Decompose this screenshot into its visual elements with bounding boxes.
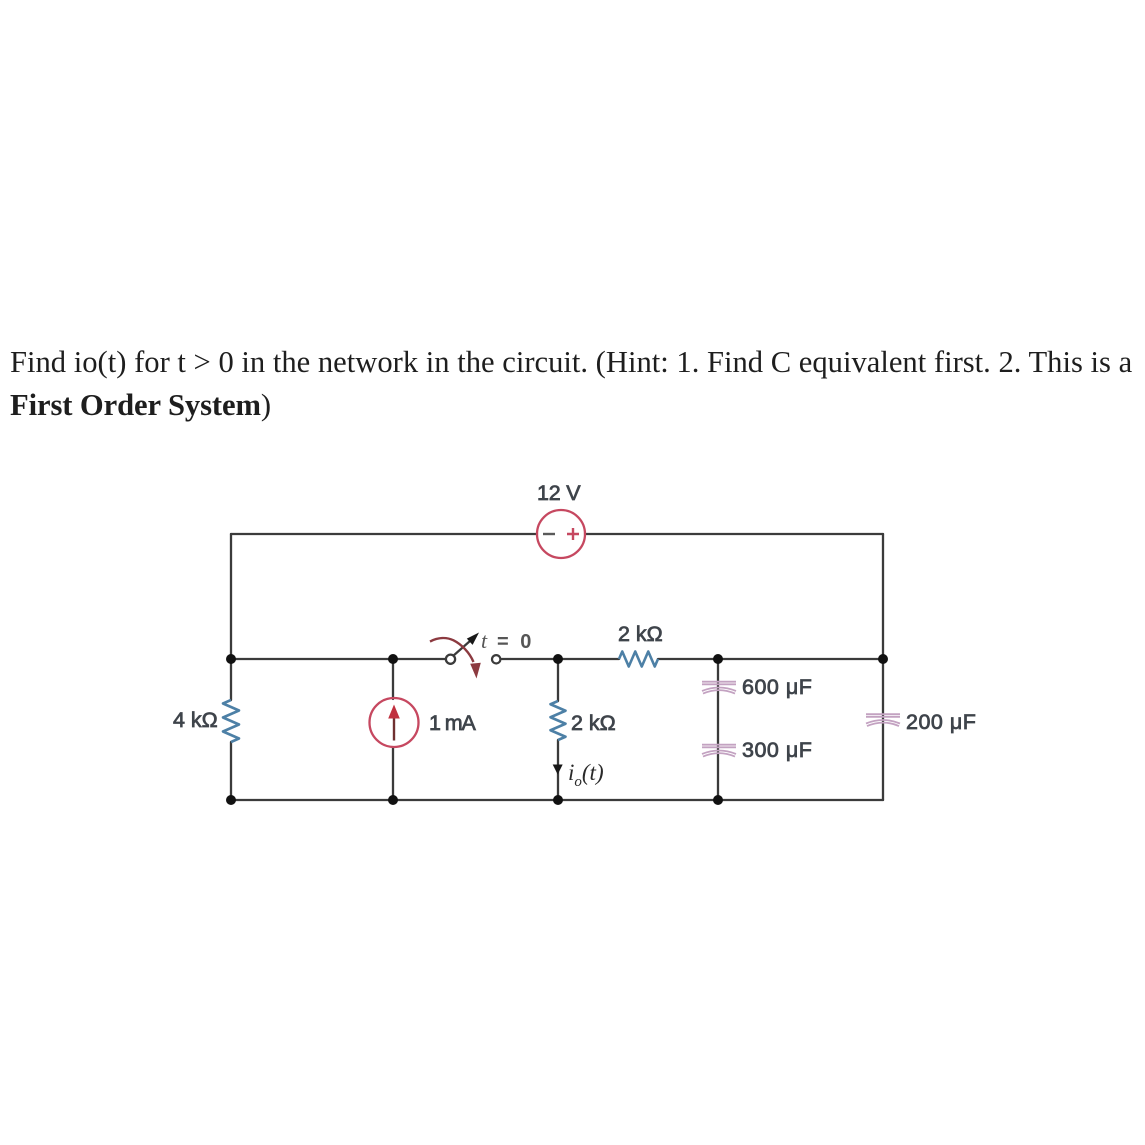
capacitor C3 200uF [866, 714, 900, 726]
wire middle left of switch [231, 658, 446, 660]
resistor R2 2 kOhm horizontal [619, 652, 658, 667]
svg-text:t: t [481, 628, 488, 653]
node C current source top junction [388, 654, 398, 664]
wire left rail lower [230, 742, 232, 800]
svg-text:2 kΩ: 2 kΩ [571, 711, 616, 735]
svg-text:= 0: = 0 [497, 631, 534, 653]
wire current source branch lower [392, 748, 394, 800]
wire top right segment [585, 533, 883, 535]
svg-text:1 mA: 1 mA [429, 711, 477, 735]
wire 2k vertical branch lower [557, 740, 559, 800]
node G capacitor branch top junction [713, 654, 723, 664]
wire current source branch upper [392, 659, 394, 699]
wire right rail [882, 534, 884, 800]
wire middle resistor to right rail [658, 658, 883, 660]
node H capacitor branch bottom junction [713, 795, 723, 805]
svg-text:2 kΩ: 2 kΩ [618, 622, 663, 646]
node F 2k branch bottom junction [553, 795, 563, 805]
svg-text:600 μF: 600 μF [742, 675, 812, 699]
wire middle switch to resistor [501, 658, 619, 660]
voltage source V1 12V [537, 510, 585, 558]
svg-text:4 kΩ: 4 kΩ [173, 708, 218, 732]
resistor R3 2 kOhm vertical [551, 701, 566, 740]
node E 2k branch top junction [553, 654, 563, 664]
wire bottom [231, 799, 883, 801]
wire capacitor branch [717, 659, 719, 800]
svg-text:io(t): io(t) [568, 760, 604, 790]
capacitor C2 300uF [702, 745, 736, 757]
node D current source bottom junction [388, 795, 398, 805]
svg-text:12 V: 12 V [537, 481, 581, 505]
svg-text:200 μF: 200 μF [906, 710, 976, 734]
node A middle-left junction [226, 654, 236, 664]
wire 2k vertical branch upper [557, 659, 559, 701]
svg-text:300 μF: 300 μF [742, 738, 812, 762]
capacitor C1 600uF [702, 682, 736, 694]
node I middle-right junction [878, 654, 888, 664]
wire top left segment [231, 533, 537, 535]
switch S1 [430, 633, 500, 679]
resistor R1 4 kOhm [223, 700, 239, 742]
node B bottom-left junction [226, 795, 236, 805]
wire left rail upper [230, 534, 232, 700]
arrow io(t) [553, 765, 563, 775]
current source I1 1 mA [370, 698, 419, 747]
